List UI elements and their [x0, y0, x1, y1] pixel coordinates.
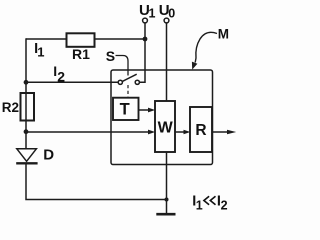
- wire U1 vertical: [140, 23, 146, 82]
- arrow output: [212, 130, 236, 134]
- switch S contact left: [118, 80, 122, 84]
- node junction top: [143, 37, 148, 42]
- ground: [156, 213, 175, 216]
- box M: [111, 70, 213, 165]
- block T: [113, 98, 139, 120]
- resistor R1: [67, 33, 95, 47]
- svg-text:1: 1: [37, 44, 44, 59]
- svg-text:R2: R2: [2, 100, 19, 115]
- svg-text:R1: R1: [72, 46, 90, 62]
- svg-text:T: T: [120, 100, 130, 118]
- svg-text:0: 0: [168, 7, 175, 21]
- arrow W to R: [175, 130, 190, 135]
- wire I2 horizontal: [26, 81, 118, 83]
- svg-text:2: 2: [57, 68, 65, 84]
- wire top horizontal left: [26, 38, 67, 40]
- wire diode bottom vertical: [26, 163, 167, 199]
- diode D: [16, 149, 37, 164]
- resistor R2: [21, 93, 35, 121]
- block R: [190, 107, 212, 152]
- arrow R2 node to W: [26, 130, 155, 135]
- dashed link switch to T: [127, 85, 129, 98]
- terminal U1: [143, 18, 148, 23]
- svg-text:D: D: [43, 146, 54, 163]
- switch S arm: [123, 74, 137, 81]
- node junction I2: [24, 80, 29, 85]
- svg-text:W: W: [158, 120, 174, 137]
- switch S contact right: [135, 80, 139, 84]
- wire ground vertical: [166, 152, 168, 213]
- leader M curve: [192, 32, 217, 69]
- node junction diode top: [24, 129, 29, 134]
- label I1 much less than I2: [192, 194, 227, 213]
- svg-text:R: R: [195, 122, 206, 139]
- terminal U0: [164, 18, 169, 23]
- leader S curve: [116, 56, 129, 76]
- svg-text:1: 1: [196, 198, 203, 212]
- block W: [155, 101, 175, 152]
- wire left vertical: [25, 38, 27, 149]
- wire top horizontal right: [94, 38, 145, 40]
- wire U0 vertical: [166, 23, 168, 101]
- svg-text:2: 2: [221, 199, 228, 213]
- svg-text:M: M: [218, 27, 229, 42]
- svg-text:S: S: [106, 48, 115, 64]
- svg-text:1: 1: [149, 7, 156, 21]
- node junction ground: [165, 198, 169, 202]
- arrow T to W: [139, 108, 156, 113]
